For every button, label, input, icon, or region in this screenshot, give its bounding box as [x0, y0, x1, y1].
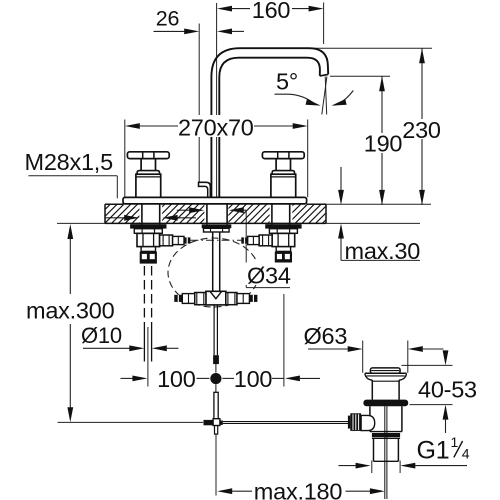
svg-text:160: 160 — [252, 0, 291, 23]
svg-text:270x70: 270x70 — [178, 115, 254, 141]
svg-text:5°: 5° — [276, 69, 298, 95]
svg-text:40-53: 40-53 — [418, 377, 477, 403]
svg-text:Ø63: Ø63 — [304, 323, 348, 349]
svg-text:26: 26 — [156, 7, 180, 31]
svg-text:100: 100 — [234, 366, 273, 392]
svg-text:190: 190 — [364, 131, 403, 157]
svg-text:100: 100 — [157, 366, 196, 392]
svg-text:max.30: max.30 — [345, 238, 421, 264]
svg-text:Ø34: Ø34 — [247, 262, 291, 288]
svg-text:max.300: max.300 — [26, 298, 115, 324]
svg-text:Ø10: Ø10 — [81, 323, 122, 348]
svg-text:max.180: max.180 — [254, 478, 343, 500]
svg-text:1: 1 — [451, 434, 459, 450]
svg-text:G1: G1 — [417, 437, 450, 465]
svg-text:M28x1,5: M28x1,5 — [25, 149, 114, 175]
svg-text:230: 230 — [402, 117, 441, 143]
svg-text:4: 4 — [462, 446, 470, 462]
